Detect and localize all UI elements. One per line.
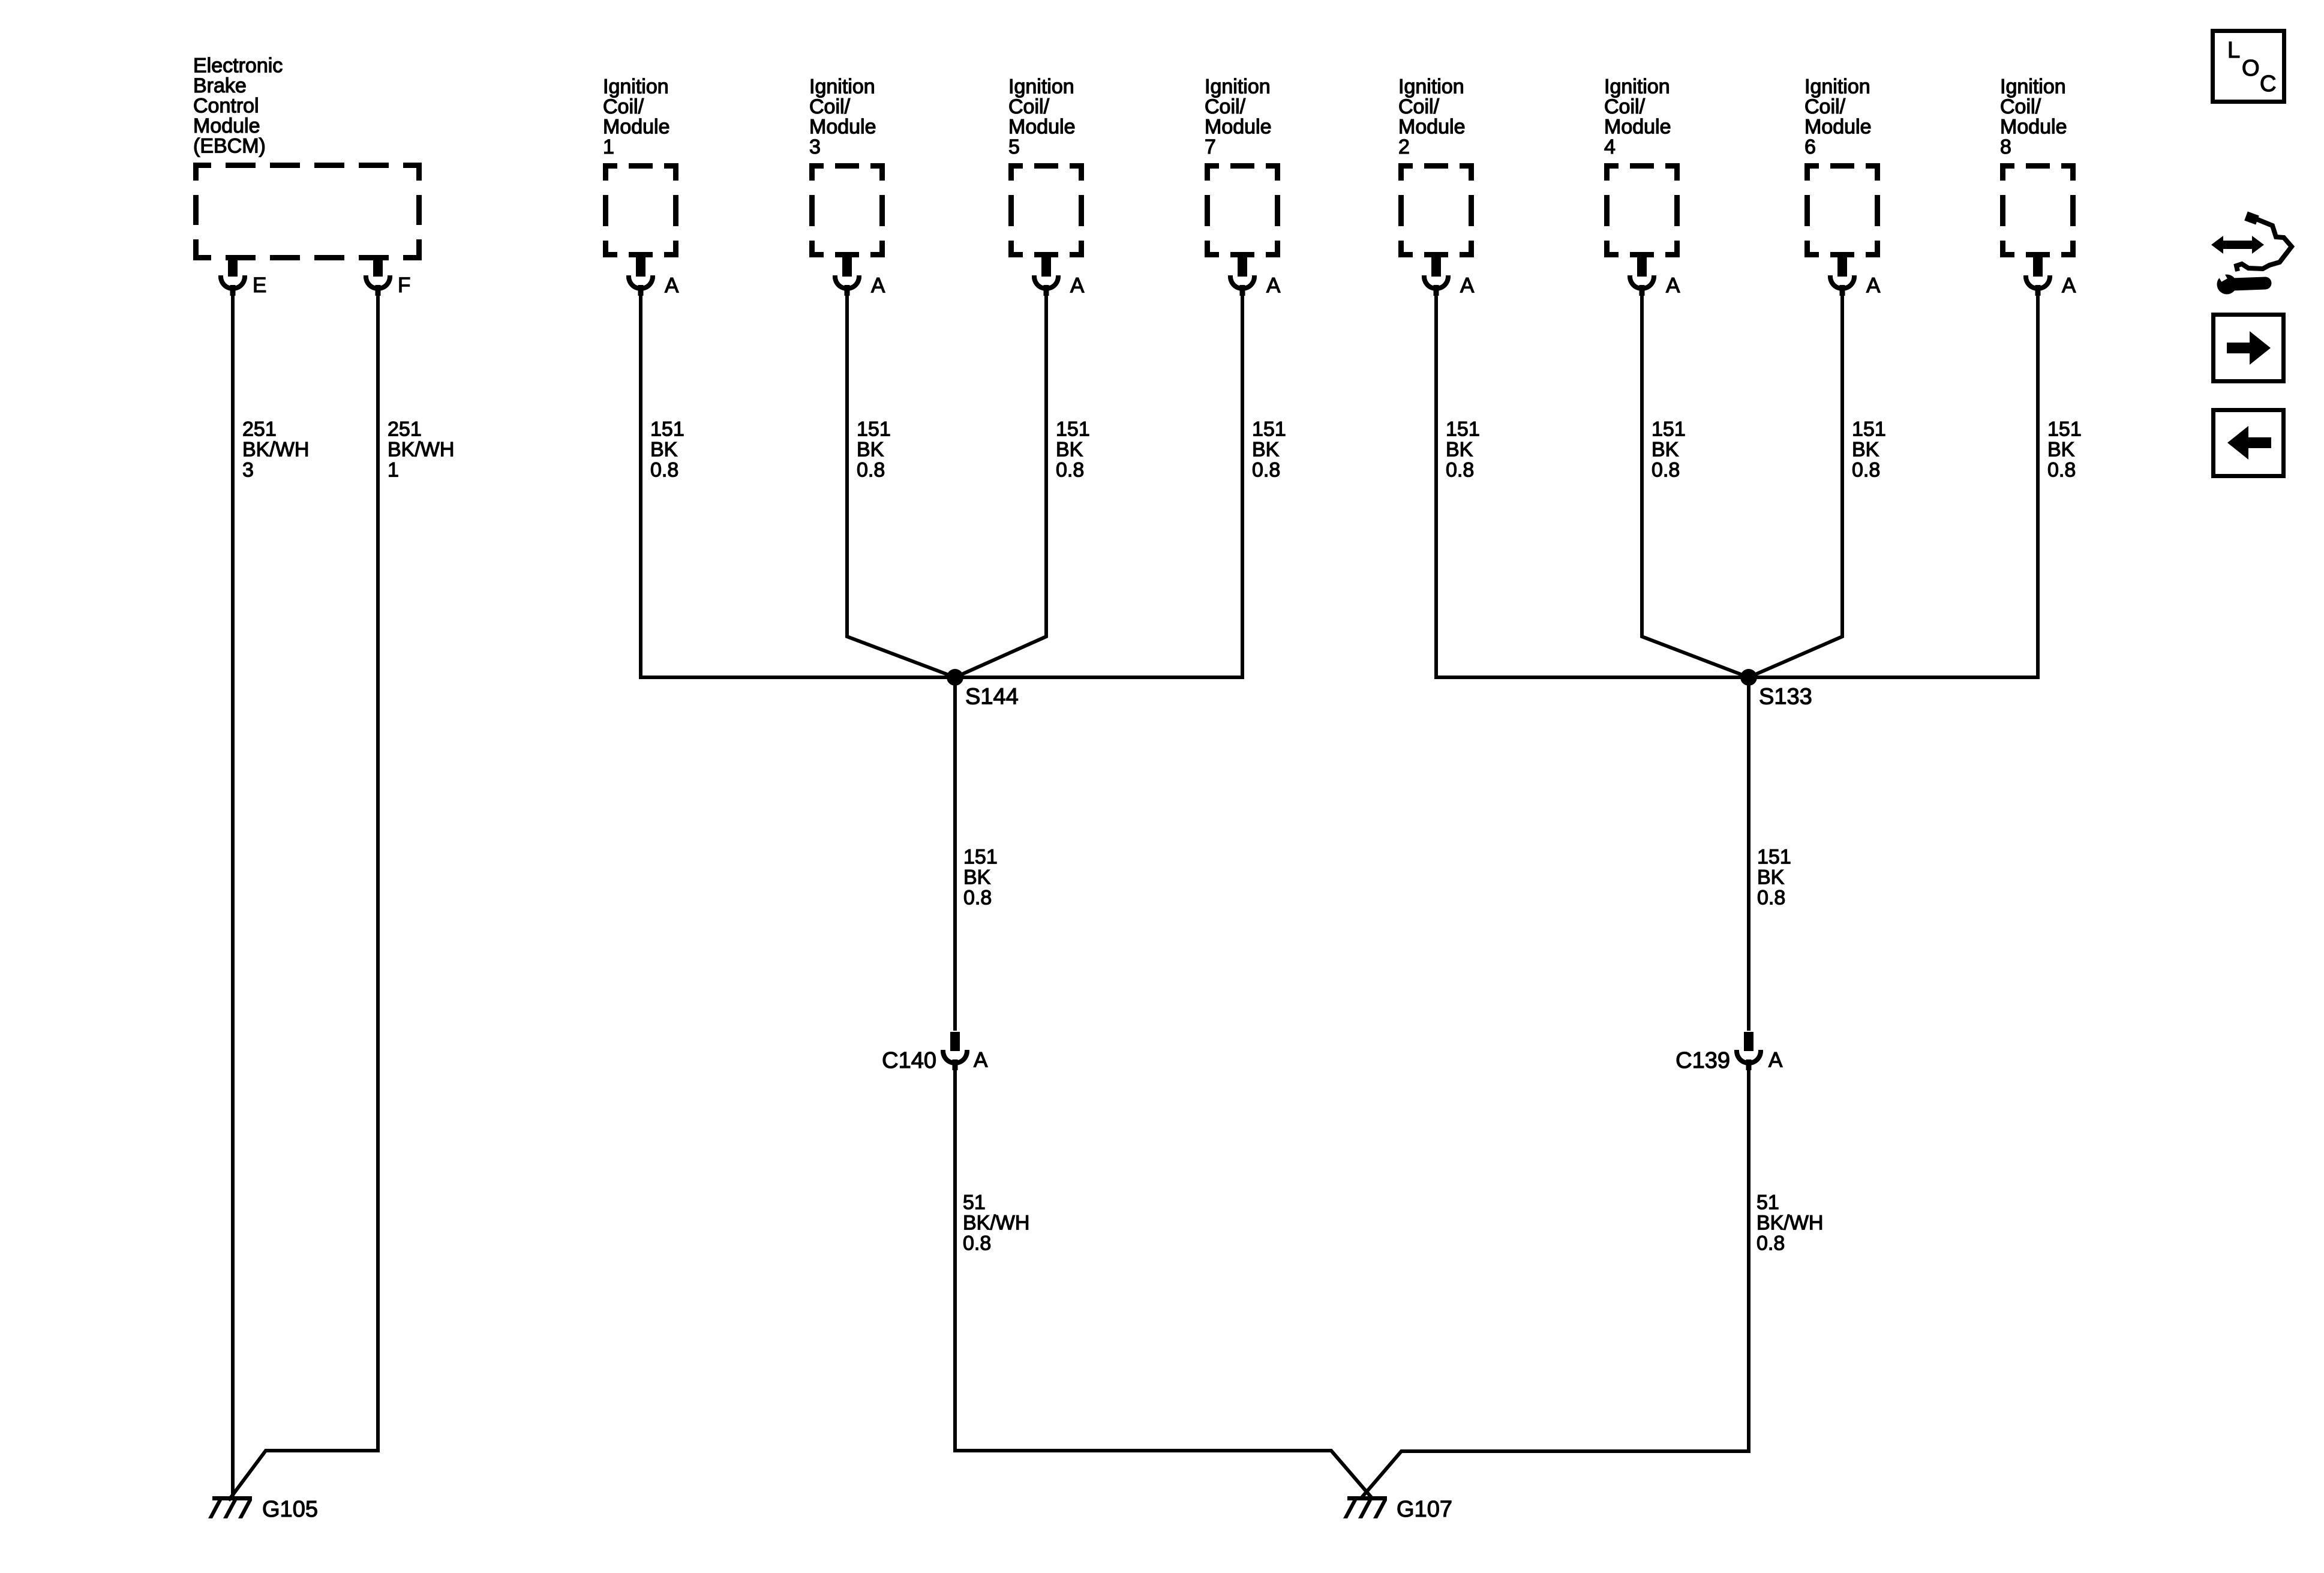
svg-text:BK: BK bbox=[1757, 866, 1785, 889]
splice S133 bbox=[1740, 669, 1757, 686]
svg-text:1: 1 bbox=[388, 459, 399, 482]
wire module 7 down to splice bus bbox=[1241, 286, 1244, 679]
svg-text:151: 151 bbox=[1757, 846, 1791, 869]
pin A connector of module 4 bbox=[1628, 257, 1656, 296]
wire label 151 BK 0.8 (module 8) bbox=[2047, 418, 2082, 482]
wire label 151 BK 0.8 (module 4) bbox=[1652, 418, 1686, 482]
svg-text:Coil/: Coil/ bbox=[1205, 95, 1246, 118]
right arrow box bbox=[2214, 315, 2284, 382]
svg-text:BK: BK bbox=[1446, 439, 1473, 461]
svg-text:Module: Module bbox=[1604, 116, 1671, 139]
svg-text:O: O bbox=[2242, 56, 2260, 81]
svg-text:Brake: Brake bbox=[193, 74, 247, 97]
svg-text:BK: BK bbox=[1852, 439, 1879, 461]
wire module 2 down to splice bus bbox=[1434, 286, 1438, 679]
svg-text:7: 7 bbox=[1205, 136, 1216, 158]
svg-text:151: 151 bbox=[857, 418, 891, 441]
pin F connector of EBCM bbox=[364, 257, 392, 296]
svg-text:Control: Control bbox=[193, 95, 259, 118]
svg-text:2: 2 bbox=[1398, 136, 1410, 158]
wire label 151 BK 0.8 (module 7) bbox=[1252, 418, 1286, 482]
ignition coil/module 3 bbox=[809, 76, 885, 258]
wire module 6 down and diagonal to S133 bbox=[1749, 286, 1842, 677]
pin A connector of module 1 bbox=[626, 257, 655, 296]
svg-text:251: 251 bbox=[388, 418, 422, 441]
svg-text:51: 51 bbox=[963, 1191, 986, 1214]
wire label 51 BK/WH 0.8 (below C140) bbox=[963, 1191, 1029, 1255]
svg-text:Ignition: Ignition bbox=[2000, 76, 2066, 98]
svg-text:0.8: 0.8 bbox=[1852, 459, 1880, 482]
svg-text:151: 151 bbox=[1852, 418, 1886, 441]
svg-text:Coil/: Coil/ bbox=[2000, 95, 2041, 118]
svg-text:A: A bbox=[1866, 274, 1881, 298]
svg-text:0.8: 0.8 bbox=[1446, 459, 1474, 482]
wire label 151 BK 0.8 (module 5) bbox=[1056, 418, 1090, 482]
svg-text:BK: BK bbox=[1252, 439, 1280, 461]
wire module 5 down and diagonal to S144 bbox=[955, 286, 1046, 677]
ignition coil/module 7 bbox=[1205, 76, 1280, 258]
svg-text:151: 151 bbox=[650, 418, 684, 441]
wire module 1 down to splice bus bbox=[639, 286, 642, 679]
wire label 151 BK 0.8 (module 3) bbox=[857, 418, 891, 482]
svg-text:E: E bbox=[253, 274, 266, 297]
svg-text:Module: Module bbox=[1008, 116, 1076, 139]
svg-text:51: 51 bbox=[1756, 1191, 1779, 1214]
left arrow box bbox=[2214, 410, 2284, 476]
splice S144 bbox=[947, 669, 963, 686]
svg-text:BK/WH: BK/WH bbox=[388, 439, 454, 461]
svg-text:BK/WH: BK/WH bbox=[242, 439, 309, 461]
svg-text:3: 3 bbox=[809, 136, 821, 158]
svg-text:151: 151 bbox=[1252, 418, 1286, 441]
svg-text:Ignition: Ignition bbox=[1604, 76, 1670, 98]
wire label 251 BK/WH 3 bbox=[242, 418, 309, 482]
svg-text:L: L bbox=[2227, 38, 2240, 63]
svg-text:BK: BK bbox=[963, 866, 991, 889]
svg-text:0.8: 0.8 bbox=[1652, 459, 1680, 482]
pin A connector of module 6 bbox=[1828, 257, 1857, 296]
ignition coil/module 8 bbox=[2000, 76, 2076, 258]
svg-text:S144: S144 bbox=[965, 685, 1019, 710]
ignition coil/module 2 bbox=[1398, 76, 1474, 258]
wire EBCM pin F down and over to G105 bbox=[229, 286, 378, 1500]
svg-text:Module: Module bbox=[1398, 116, 1466, 139]
svg-text:C140: C140 bbox=[882, 1048, 936, 1073]
wire C139 down and over to G107 bbox=[1362, 1061, 1749, 1497]
svg-text:G105: G105 bbox=[262, 1497, 318, 1522]
svg-text:A: A bbox=[2062, 274, 2076, 298]
svg-text:151: 151 bbox=[1056, 418, 1090, 441]
wire EBCM pin E to G105 bbox=[231, 286, 235, 1500]
wire label 151 BK 0.8 (module 1) bbox=[650, 418, 684, 482]
wire S144 down to C140 bbox=[953, 677, 957, 1031]
svg-text:5: 5 bbox=[1008, 136, 1020, 158]
wire S133 down to C139 bbox=[1747, 677, 1750, 1031]
svg-text:0.8: 0.8 bbox=[1757, 887, 1785, 909]
svg-text:6: 6 bbox=[1804, 136, 1816, 158]
svg-text:0.8: 0.8 bbox=[963, 887, 992, 909]
svg-text:Coil/: Coil/ bbox=[1398, 95, 1440, 118]
svg-text:BK: BK bbox=[2047, 439, 2075, 461]
svg-text:0.8: 0.8 bbox=[1756, 1232, 1785, 1255]
LOC box bbox=[2213, 31, 2284, 102]
svg-text:A: A bbox=[1266, 274, 1281, 298]
Electronic Brake Control Module (EBCM) label bbox=[193, 55, 283, 158]
svg-text:0.8: 0.8 bbox=[2047, 459, 2076, 482]
svg-text:151: 151 bbox=[963, 846, 998, 869]
svg-text:A: A bbox=[665, 274, 679, 298]
svg-text:G107: G107 bbox=[1397, 1497, 1452, 1522]
svg-text:(EBCM): (EBCM) bbox=[193, 135, 266, 158]
svg-text:Module: Module bbox=[809, 116, 876, 139]
svg-text:3: 3 bbox=[242, 459, 254, 482]
splice bus S144 horizontal bbox=[641, 676, 1242, 679]
svg-text:A: A bbox=[1070, 274, 1085, 298]
pin A connector of module 8 bbox=[2023, 257, 2052, 296]
pin A connector of module 3 bbox=[833, 257, 861, 296]
svg-text:151: 151 bbox=[1446, 418, 1480, 441]
svg-text:Module: Module bbox=[1205, 116, 1272, 139]
ignition coil/module 4 bbox=[1604, 76, 1680, 258]
svg-text:0.8: 0.8 bbox=[1056, 459, 1084, 482]
svg-text:Coil/: Coil/ bbox=[809, 95, 851, 118]
wire label 51 BK/WH 0.8 (below C139) bbox=[1756, 1191, 1823, 1255]
svg-text:A: A bbox=[1460, 274, 1475, 298]
ground G105 bbox=[208, 1496, 252, 1518]
pin A connector of module 2 bbox=[1422, 257, 1451, 296]
wire module 4 down and diagonal to S133 bbox=[1642, 286, 1749, 677]
ignition coil/module 6 bbox=[1804, 76, 1880, 258]
wire module 8 down to splice bus bbox=[2036, 286, 2040, 679]
splice bus S133 horizontal bbox=[1436, 676, 2038, 679]
svg-text:BK: BK bbox=[857, 439, 884, 461]
svg-text:0.8: 0.8 bbox=[1252, 459, 1280, 482]
svg-text:Coil/: Coil/ bbox=[1008, 95, 1050, 118]
svg-text:Electronic: Electronic bbox=[193, 55, 283, 77]
ground G107 bbox=[1343, 1496, 1387, 1518]
pin E connector of EBCM bbox=[218, 257, 247, 296]
svg-text:BK/WH: BK/WH bbox=[1756, 1212, 1823, 1235]
svg-text:A: A bbox=[1666, 274, 1680, 298]
svg-text:C: C bbox=[2260, 71, 2276, 97]
svg-text:BK: BK bbox=[1652, 439, 1679, 461]
svg-text:Ignition: Ignition bbox=[1205, 76, 1271, 98]
wire C140 down and over to G107 bbox=[955, 1061, 1372, 1498]
wire label 151 BK 0.8 (module 6) bbox=[1852, 418, 1886, 482]
wire module 3 down and diagonal to S144 bbox=[847, 286, 955, 677]
wire label 151 BK 0.8 (below S144) bbox=[963, 846, 998, 909]
svg-text:Ignition: Ignition bbox=[1008, 76, 1074, 98]
svg-text:C139: C139 bbox=[1676, 1048, 1730, 1073]
svg-text:151: 151 bbox=[2047, 418, 2082, 441]
svg-text:Ignition: Ignition bbox=[603, 76, 669, 98]
svg-text:Coil/: Coil/ bbox=[1604, 95, 1646, 118]
svg-text:BK: BK bbox=[1056, 439, 1083, 461]
svg-text:Ignition: Ignition bbox=[1398, 76, 1464, 98]
svg-text:0.8: 0.8 bbox=[857, 459, 885, 482]
svg-text:Ignition: Ignition bbox=[809, 76, 875, 98]
svg-text:F: F bbox=[398, 274, 410, 297]
svg-text:BK: BK bbox=[650, 439, 678, 461]
svg-text:8: 8 bbox=[2000, 136, 2011, 158]
svg-text:4: 4 bbox=[1604, 136, 1616, 158]
wire label 151 BK 0.8 (module 2) bbox=[1446, 418, 1480, 482]
svg-text:BK/WH: BK/WH bbox=[963, 1212, 1029, 1235]
svg-text:Module: Module bbox=[603, 116, 670, 139]
svg-text:Module: Module bbox=[1804, 116, 1872, 139]
pin A connector of module 7 bbox=[1228, 257, 1257, 296]
pin A connector of module 5 bbox=[1032, 257, 1061, 296]
EBCM dashed box bbox=[193, 163, 422, 260]
svg-text:Coil/: Coil/ bbox=[1804, 95, 1846, 118]
wire label 151 BK 0.8 (below S133) bbox=[1757, 846, 1791, 909]
svg-text:0.8: 0.8 bbox=[963, 1232, 991, 1255]
svg-text:A: A bbox=[974, 1049, 988, 1072]
connector C139 pin A bbox=[1734, 1032, 1763, 1070]
svg-text:151: 151 bbox=[1652, 418, 1686, 441]
svg-text:S133: S133 bbox=[1759, 685, 1812, 710]
svg-text:Module: Module bbox=[193, 115, 260, 137]
connector C140 pin A bbox=[941, 1032, 969, 1070]
svg-text:A: A bbox=[1768, 1049, 1783, 1072]
svg-text:Ignition: Ignition bbox=[1804, 76, 1870, 98]
ignition coil/module 5 bbox=[1008, 76, 1084, 258]
service icon: double arrow, outline, wrench bbox=[2211, 216, 2292, 295]
svg-text:A: A bbox=[871, 274, 885, 298]
svg-text:Coil/: Coil/ bbox=[603, 95, 644, 118]
svg-text:1: 1 bbox=[603, 136, 614, 158]
wire label 251 BK/WH 1 bbox=[388, 418, 454, 482]
svg-text:251: 251 bbox=[242, 418, 277, 441]
svg-text:Module: Module bbox=[2000, 116, 2067, 139]
svg-text:0.8: 0.8 bbox=[650, 459, 678, 482]
ignition coil/module 1 bbox=[603, 76, 678, 258]
